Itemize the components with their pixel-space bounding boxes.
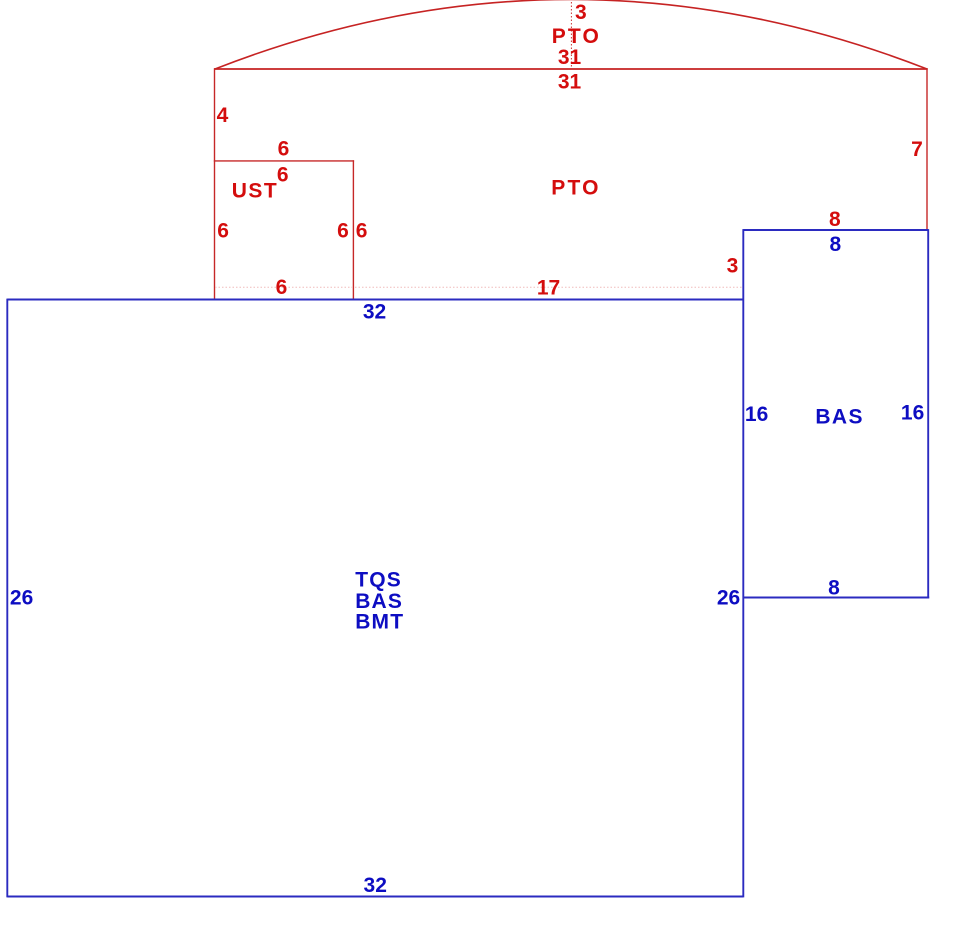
svg-text:7: 7	[911, 138, 923, 161]
BAS top wall	[743, 229, 928, 231]
svg-text:16: 16	[745, 403, 768, 426]
svg-text:3: 3	[727, 255, 739, 278]
svg-text:17: 17	[537, 277, 560, 300]
TQS/BAS/BMT main rectangle: top wall	[7, 299, 743, 301]
PTO/porch top horizontal wall	[214, 68, 928, 70]
svg-text:31: 31	[558, 46, 582, 69]
svg-text:UST: UST	[232, 180, 279, 203]
UST right wall	[352, 160, 354, 299]
svg-text:4: 4	[217, 104, 229, 127]
main rectangle bottom wall	[7, 896, 743, 898]
svg-text:6: 6	[278, 138, 290, 161]
svg-text:31: 31	[558, 71, 582, 94]
svg-text:26: 26	[10, 586, 33, 609]
svg-text:26: 26	[717, 587, 740, 610]
svg-text:16: 16	[901, 401, 924, 424]
PTO right wall	[926, 68, 928, 230]
dotted PTO bottom hidden edge	[215, 286, 743, 288]
svg-text:8: 8	[829, 233, 841, 256]
svg-text:6: 6	[217, 220, 229, 243]
svg-text:PTO: PTO	[551, 177, 600, 200]
svg-text:BAS: BAS	[355, 590, 403, 613]
main/BAS shared right wall	[742, 229, 744, 897]
svg-text:32: 32	[363, 301, 386, 324]
svg-text:3: 3	[575, 1, 587, 24]
svg-text:8: 8	[829, 208, 841, 231]
UST top wall	[214, 160, 354, 162]
svg-text:BMT: BMT	[355, 611, 404, 634]
BAS right wall	[927, 229, 929, 598]
svg-text:6: 6	[276, 276, 288, 299]
dotted center line of arc	[570, 2, 572, 68]
svg-text:32: 32	[364, 874, 387, 897]
BAS bottom wall	[743, 597, 929, 599]
PTO left wall	[214, 68, 216, 299]
svg-text:8: 8	[828, 577, 840, 600]
PTO arc top	[215, 0, 927, 69]
svg-text:6: 6	[356, 220, 368, 243]
svg-text:BAS: BAS	[815, 406, 864, 429]
svg-text:TQS: TQS	[355, 568, 402, 591]
main rectangle left wall	[6, 299, 8, 898]
svg-text:6: 6	[277, 163, 289, 186]
svg-text:PTO: PTO	[552, 25, 601, 48]
svg-text:6: 6	[337, 220, 349, 243]
